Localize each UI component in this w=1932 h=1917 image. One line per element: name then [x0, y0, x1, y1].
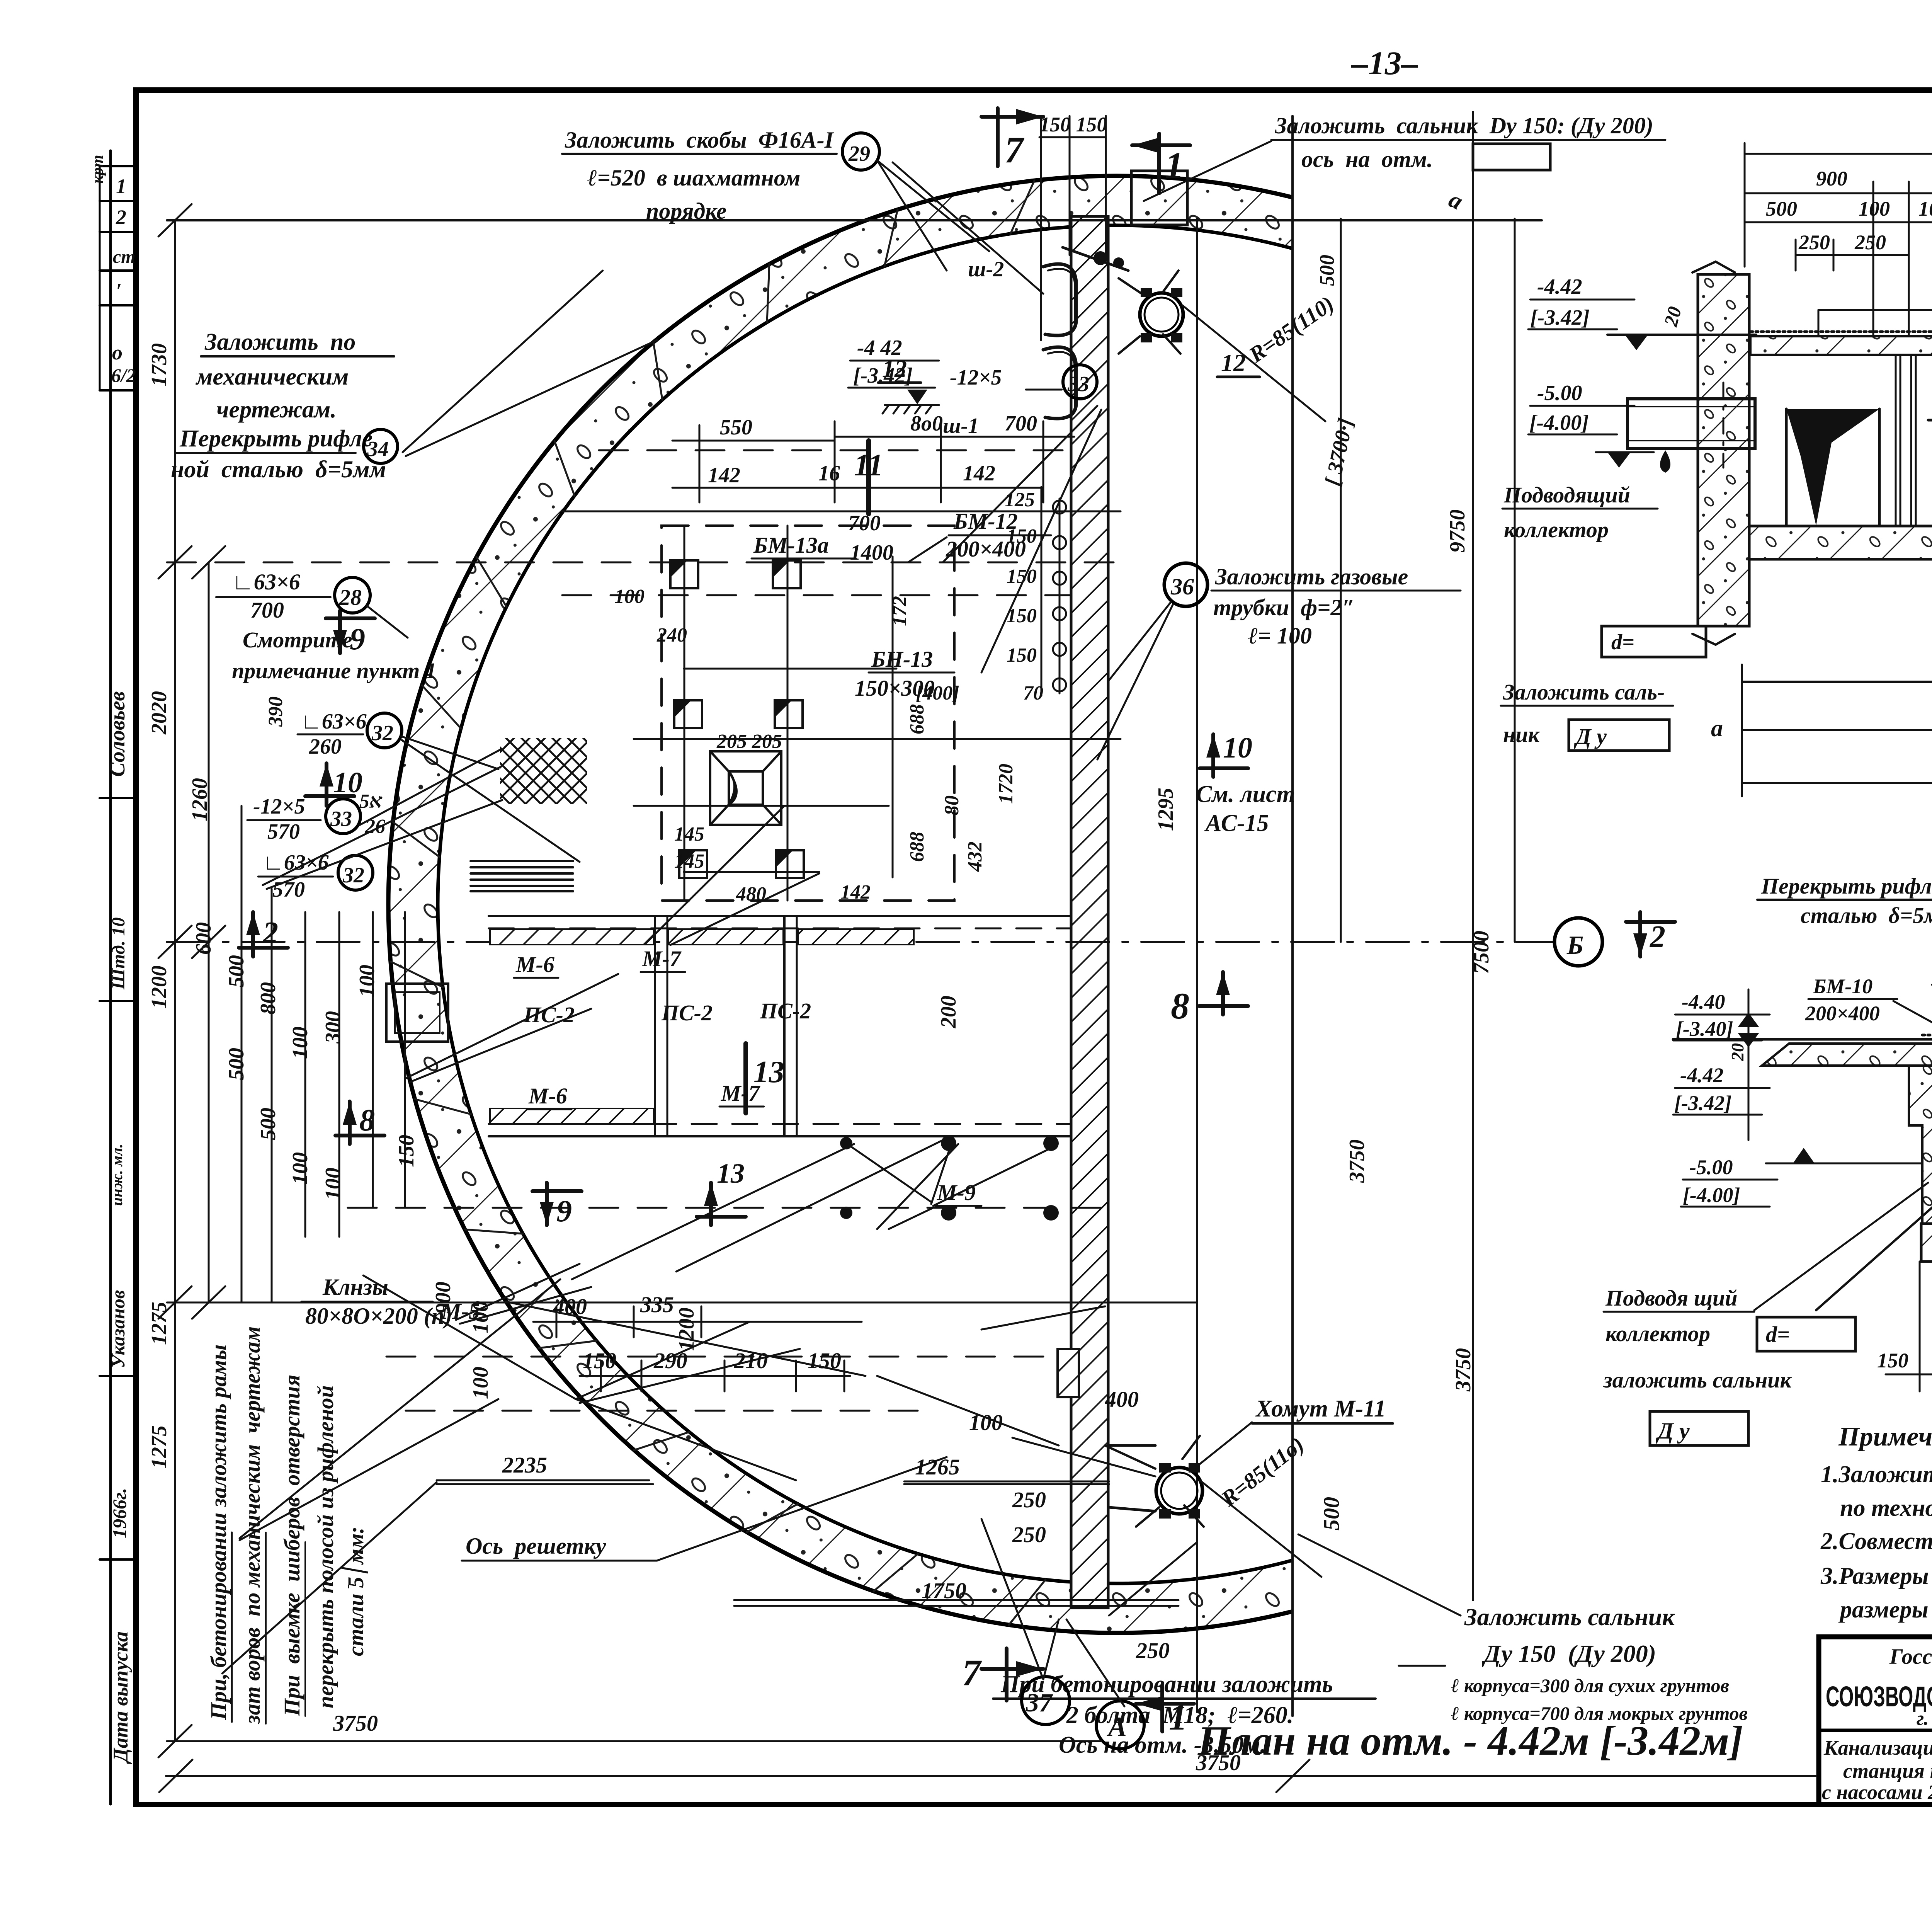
svg-text:100: 100: [288, 1027, 312, 1059]
svg-text:200: 200: [937, 996, 961, 1028]
svg-text:260: 260: [309, 735, 342, 759]
dims under pit: [1886, 1262, 1932, 1391]
svg-text:БМ-13а: БМ-13а: [753, 533, 829, 558]
1 mark top: [1132, 134, 1190, 193]
svg-text:Дата выпуска: Дата выпуска: [109, 1631, 132, 1764]
svg-text:80×8О×200 (п): 80×8О×200 (п): [305, 1303, 452, 1329]
rotated margin signatures: [105, 691, 132, 1764]
svg-text:150: 150: [1877, 1349, 1908, 1372]
svg-text:172: 172: [889, 596, 911, 626]
svg-text:250: 250: [1854, 231, 1886, 254]
svg-text:R=85(11о): R=85(11о): [1216, 1432, 1309, 1512]
svg-text:150: 150: [1007, 525, 1037, 547]
svg-text:чертежам.: чертежам.: [216, 397, 337, 423]
horizontal axis top: [167, 219, 1542, 221]
svg-text:перекрыть полосой из рифленой: перекрыть полосой из рифленой: [313, 1385, 338, 1708]
svg-text:-5.00: -5.00: [1537, 381, 1582, 405]
svg-text:примечание пункт 1: примечание пункт 1: [232, 658, 437, 683]
8 mark: [335, 1102, 384, 1144]
bottom long dim line: [166, 1775, 1816, 1777]
svg-text:зат воров по механическим че: зат воров по механическим чертежам: [240, 1326, 265, 1725]
svg-text:37: 37: [1026, 1688, 1053, 1717]
svg-text:Хомут М-11: Хомут М-11: [1255, 1396, 1386, 1422]
svg-text:о: о: [112, 341, 122, 364]
svg-text:размеры в квадратных скобках д: размеры в квадратных скобках даны для ст…: [1838, 1597, 1932, 1623]
svg-text:700: 700: [250, 598, 284, 623]
svg-text:А: А: [1107, 1711, 1127, 1742]
svg-text:3750: 3750: [333, 1711, 378, 1736]
labels БМ-10 ПС-2 М-б: [1805, 960, 1932, 1025]
svg-text:205 205: 205 205: [716, 730, 782, 752]
svg-text:200×400: 200×400: [1805, 1002, 1880, 1025]
svg-text:688: 688: [906, 832, 928, 862]
svg-text:7500: 7500: [1469, 931, 1493, 974]
svg-text:Б: Б: [1566, 930, 1583, 960]
svg-text:335: 335: [640, 1292, 674, 1317]
7 mark bottom: [981, 1648, 1043, 1701]
bottom dim lines: [1742, 665, 1932, 796]
svg-text:32: 32: [342, 863, 364, 887]
svg-text:688: 688: [906, 704, 928, 734]
svg-text:3750: 3750: [1196, 1750, 1241, 1775]
rooms block: [489, 916, 1071, 1136]
svg-text:∟63×6: ∟63×6: [232, 569, 300, 594]
svg-text:[-3.42]: [-3.42]: [1530, 306, 1590, 330]
svg-text:300: 300: [321, 1011, 345, 1044]
svg-text:1295: 1295: [1154, 788, 1178, 831]
svg-text:3.Размеры в круглых скобках да: 3.Размеры в круглых скобках даны для ста…: [1820, 1563, 1932, 1589]
dark junction dots: [941, 1136, 956, 1151]
floor level line + riffle: [1673, 1038, 1932, 1041]
leaders to М-9 dots: [850, 1146, 931, 1202]
svg-text:Перекрыть рифле: Перекрыть рифле: [179, 426, 372, 452]
svg-text:Заложить сальник: Заложить сальник: [1464, 1603, 1675, 1631]
Перекрыть рифленой сталью + 34: [1761, 873, 1932, 928]
Подводящий коллектор block (8-8): [1503, 482, 1665, 747]
svg-text:Заложить саль-: Заложить саль-: [1503, 679, 1665, 705]
axis 2 dash-dot: [167, 941, 1554, 943]
svg-text:крт: крт: [89, 155, 107, 184]
svg-text:-4.42: -4.42: [1680, 1064, 1723, 1087]
top notes: skoby: [565, 127, 835, 224]
svg-text:8: 8: [1171, 985, 1189, 1027]
svg-text:70: 70: [1023, 682, 1043, 704]
svg-text:трубки ф=2″: трубки ф=2″: [1213, 595, 1355, 620]
9 marks: [326, 611, 375, 653]
svg-text:∟63×6: ∟63×6: [263, 851, 329, 875]
svg-text:См. лист: См. лист: [1196, 781, 1295, 807]
svg-text:ст: ст: [113, 247, 136, 267]
svg-text:250: 250: [1798, 231, 1830, 254]
svg-text:100: 100: [321, 1168, 345, 1200]
svg-text:2020: 2020: [147, 691, 171, 735]
svg-text:10: 10: [333, 766, 362, 799]
svg-text:–13–: –13–: [1351, 44, 1418, 82]
room labels: [441, 946, 976, 1324]
svg-text:[ 3700·]: [ 3700·]: [1320, 416, 1358, 488]
svg-text:1730: 1730: [147, 343, 171, 386]
svg-text:240: 240: [656, 624, 687, 646]
svg-text:коллектор: коллектор: [1504, 517, 1609, 542]
svg-text:100: 100: [355, 965, 379, 997]
svg-text:ник: ник: [1503, 722, 1540, 747]
svg-text:700: 700: [1005, 412, 1037, 436]
left binding margin line: [109, 151, 112, 1804]
svg-text:1720: 1720: [995, 764, 1017, 804]
1 mark bottom: [1136, 1685, 1194, 1731]
main vertical axis lines right of band: [1197, 112, 1515, 1716]
rotated dims right part: [937, 416, 1493, 1392]
bottom slab: [1749, 526, 1932, 559]
svg-text:Д у: Д у: [1656, 1418, 1690, 1444]
svg-text:1400: 1400: [850, 541, 893, 565]
interior small dims: [359, 586, 1017, 905]
svg-text:Ду 150 (Ду 200): Ду 150 (Ду 200): [1482, 1640, 1656, 1667]
lower area dims: [333, 1348, 1344, 1775]
svg-text:d=: d=: [1611, 630, 1634, 654]
svg-text:900: 900: [1816, 167, 1847, 190]
svg-text:׬א5: ׬א5: [359, 790, 383, 812]
-12x5 570 33: [253, 795, 305, 844]
Подводящий коллектор block (9-9): [1603, 1285, 1792, 1393]
svg-text:13: 13: [717, 1158, 745, 1189]
svg-text:′: ′: [116, 279, 122, 302]
svg-text:[-4.00]: [-4.00]: [1529, 411, 1589, 435]
small left block on axis: [386, 984, 448, 1042]
svg-text:100: 100: [614, 586, 645, 608]
svg-text:1275: 1275: [147, 1302, 171, 1345]
svg-text:20: 20: [1660, 304, 1685, 329]
svg-text:900: 900: [431, 1282, 455, 1314]
level -4.42 left: [1530, 275, 1590, 330]
cross-hatched patch: [500, 738, 587, 804]
top dim lines: [1745, 143, 1932, 802]
column double lines: [1896, 355, 1916, 526]
bolts column: [1041, 487, 1066, 696]
svg-text:28: 28: [339, 585, 362, 610]
rotated bottom-left long texts: [206, 1326, 368, 1725]
svg-text:М-6: М-6: [528, 1083, 567, 1108]
svg-text:1966г.: 1966г.: [109, 1488, 130, 1538]
svg-text:АС-15: АС-15: [1204, 810, 1269, 836]
chain rotated labels: [147, 343, 699, 1469]
svg-text:М-7: М-7: [642, 946, 682, 971]
svg-text:550: 550: [720, 415, 752, 439]
svg-text:500: 500: [1766, 197, 1797, 220]
ring annulus: [388, 176, 1845, 1633]
svg-text:6/2: 6/2: [111, 364, 136, 386]
svg-text:34: 34: [367, 437, 389, 461]
left slab hatch: [1762, 1044, 1932, 1066]
svg-text:по технологическому чертежу ТК: по технологическому чертежу ТК-4: [1840, 1495, 1932, 1521]
svg-text:33: 33: [330, 807, 352, 831]
svg-text:станция на 2 агрегата: станция на 2 агрегата: [1843, 1759, 1932, 1783]
svg-text:32: 32: [371, 721, 393, 745]
svg-text:250: 250: [1012, 1487, 1046, 1512]
svg-text:500: 500: [256, 1108, 280, 1140]
svg-text:390: 390: [265, 696, 287, 727]
long horizontals: [167, 450, 1197, 1741]
svg-text:Заложить скобы Ф16А-I: Заложить скобы Ф16А-I: [565, 127, 835, 153]
svg-text:ℓ= 100: ℓ= 100: [1248, 623, 1312, 649]
svg-text:1: 1: [1165, 145, 1184, 186]
svg-text:с насосами 2 ½ НФ или 4НФ: с насосами 2 ½ НФ или 4НФ: [1822, 1781, 1932, 1804]
svg-text:[-3.42]: [-3.42]: [1674, 1091, 1731, 1115]
level -5.00 left: [1529, 381, 1589, 435]
svg-text:Смотрите: Смотрите: [243, 627, 352, 652]
svg-text:d=: d=: [1766, 1322, 1790, 1347]
svg-text:сталью δ=5мм.: сталью δ=5мм.: [1801, 903, 1932, 928]
svg-text:Подводя щий: Подводя щий: [1605, 1285, 1738, 1311]
svg-text:250: 250: [1012, 1522, 1046, 1547]
svg-text:Соловьев: Соловьев: [105, 691, 129, 777]
svg-text:-4.40: -4.40: [1682, 990, 1725, 1013]
svg-text:2: 2: [116, 206, 126, 229]
black shutter triangle: [1786, 409, 1879, 526]
svg-text:145: 145: [674, 850, 704, 872]
sальник bottom-right notes: [1451, 1603, 1748, 1724]
svg-text:-5.00: -5.00: [1689, 1156, 1733, 1179]
pit floor slab: [1921, 1224, 1932, 1262]
ПС-2 bracket: [1818, 309, 1932, 311]
svg-text:инж. мл.: инж. мл.: [108, 1144, 126, 1206]
svg-text:-4.42: -4.42: [1537, 275, 1582, 299]
svg-text:Штд. 10: Штд. 10: [108, 917, 129, 990]
svg-text:8о0: 8о0: [910, 412, 943, 436]
svg-text:29: 29: [848, 142, 870, 166]
svg-text:Заложить по: Заложить по: [204, 329, 355, 355]
svg-text:стали ֿ׀5мм׃: стали ֿ׀5мм׃: [341, 1528, 368, 1656]
7 mark top: [981, 108, 1043, 166]
svg-text:1: 1: [1169, 1696, 1187, 1738]
margin ladder top: [100, 166, 136, 1559]
svg-text:150 150: 150 150: [1039, 113, 1107, 136]
svg-text:Заложить газовые: Заложить газовые: [1215, 564, 1408, 589]
svg-text:570: 570: [267, 820, 300, 844]
svg-text:[400]: [400]: [916, 682, 959, 704]
extra dashed horizontals: [406, 595, 1071, 1411]
-4.42 level plan top: [853, 336, 913, 388]
svg-text:ℓ корпуса=700 для мокрых грунт: ℓ корпуса=700 для мокрых грунтов: [1451, 1702, 1748, 1724]
svg-text:ш-1: ш-1: [943, 414, 979, 438]
svg-text:Примечания:: Примечания:: [1838, 1422, 1932, 1452]
pipe through wall: [1628, 399, 1755, 448]
svg-text:заложить сальник: заложить сальник: [1603, 1367, 1792, 1393]
left wall: [1909, 1066, 1932, 1224]
svg-text:порядке: порядке: [646, 198, 727, 224]
svg-text:-12×5: -12×5: [253, 795, 305, 819]
svg-text:При, бетонировании заложить ра: При, бетонировании заложить рамы: [206, 1345, 231, 1720]
svg-text:БН-13: БН-13: [871, 647, 933, 672]
10 mark left: [305, 763, 354, 806]
svg-text:г. Москва: г. Москва: [1917, 1708, 1932, 1730]
svg-text:2235: 2235: [502, 1452, 547, 1478]
svg-text:Перекрыть рифленой: Перекрыть рифленой: [1761, 873, 1932, 899]
БМ-13а / БН-13 labels: [753, 533, 935, 701]
svg-text:150: 150: [583, 1348, 616, 1373]
svg-text:1: 1: [116, 175, 126, 198]
svg-text:2: 2: [262, 916, 278, 950]
vertical chord wall band: [1071, 216, 1108, 1608]
svg-text:ось на отм.: ось на отм.: [1301, 146, 1433, 172]
small squares with dark corner: [670, 560, 804, 878]
svg-text:БМ-10: БМ-10: [1813, 975, 1872, 998]
svg-text:33: 33: [1067, 372, 1089, 396]
svg-text:ПС-2: ПС-2: [523, 1002, 575, 1027]
svg-text:ш-2: ш-2: [968, 257, 1004, 281]
svg-text:10: 10: [1223, 732, 1252, 764]
БМ-12: [946, 509, 1026, 562]
margin small texts: [89, 155, 136, 386]
circle 36 + газовые трубки: [1164, 563, 1207, 606]
svg-text:Заложить сальник Dу 150: (Ду: Заложить сальник Dу 150: (Ду 200): [1275, 113, 1653, 138]
svg-text:Ось решетку: Ось решетку: [466, 1533, 606, 1559]
svg-text:Подводящий: Подводящий: [1503, 482, 1630, 507]
svg-text:׬16: ׬16: [818, 461, 840, 485]
svg-text:7: 7: [962, 1652, 982, 1693]
svg-text:500: 500: [224, 1048, 248, 1080]
svg-text:1750: 1750: [922, 1578, 966, 1603]
svg-text:500: 500: [1315, 255, 1338, 286]
svg-text:а: а: [1445, 186, 1467, 215]
svg-text:коллектор: коллектор: [1605, 1321, 1710, 1346]
svg-text:ℓ=520 в шахматном: ℓ=520 в шахматном: [587, 165, 801, 191]
svg-text:100: 100: [288, 1152, 312, 1185]
svg-text:М-6: М-6: [515, 952, 554, 977]
svg-text:2.Совместно с данным листом с: 2.Совместно с данным листом см. листы АС…: [1820, 1528, 1932, 1554]
svg-text:9: 9: [556, 1194, 572, 1228]
svg-text:142: 142: [708, 463, 740, 487]
top slab left with riffled strip: [1750, 336, 1932, 355]
ticks on chains: [158, 204, 225, 1757]
dashed mid line: [1928, 419, 1932, 422]
svg-text:[-3.40]: [-3.40]: [1676, 1017, 1733, 1040]
svg-text:1275: 1275: [147, 1425, 171, 1469]
125/150 chain labels: [1005, 489, 1043, 704]
svg-text:432: 432: [964, 841, 986, 872]
svg-text:150: 150: [1007, 644, 1037, 666]
svg-text:СОЮЗВОДОКАНАЛПРОЕКТ: СОЮЗВОДОКАНАЛПРОЕКТ: [1826, 1680, 1932, 1713]
svg-text:а: а: [1711, 715, 1723, 742]
svg-text:ℓ корпуса=300 для сухих грунто: ℓ корпуса=300 для сухих грунтов: [1451, 1675, 1729, 1696]
svg-text:145: 145: [674, 823, 704, 845]
svg-text:800: 800: [256, 982, 280, 1015]
left levels: [1674, 990, 1740, 1207]
svg-text:Указанов: Указанов: [107, 1290, 129, 1368]
svg-text:2: 2: [1650, 920, 1665, 954]
svg-text:1260: 1260: [188, 778, 212, 821]
radial hatch ticks on ring: [391, 180, 1046, 1625]
svg-text:100: 100: [469, 1367, 493, 1399]
svg-text:125: 125: [1005, 489, 1035, 511]
svg-text:R=85(110): R=85(110): [1244, 291, 1338, 368]
top pipe detail: [1131, 171, 1187, 225]
svg-text:ной сталью δ=5мм: ной сталью δ=5мм: [171, 456, 386, 483]
left dim chains vertical lines: [175, 220, 405, 1741]
svg-text:Клнзы: Клнзы: [322, 1274, 388, 1300]
8 mark right-middle: [1199, 972, 1248, 1015]
svg-text:Канализационная насосная: Канализационная насосная: [1823, 1736, 1932, 1759]
upper machine zone: [634, 526, 954, 901]
center trapezoid sump: [710, 751, 781, 825]
2 mark right: [1626, 912, 1675, 957]
S-bars: [1043, 264, 1076, 335]
svg-text:-12×5: -12×5: [950, 366, 1002, 390]
svg-text:9750: 9750: [1446, 509, 1469, 553]
svg-text:1200: 1200: [147, 965, 171, 1009]
svg-text:100: 100: [1918, 197, 1932, 220]
2 mark left: [239, 912, 288, 957]
svg-text:1.Заложить при бетонировании д: 1.Заложить при бетонировании два чугунны…: [1821, 1461, 1932, 1488]
stair lines: [471, 861, 573, 891]
svg-text:250: 250: [1136, 1638, 1170, 1663]
svg-text:500: 500: [224, 955, 248, 987]
svg-text:ПС-2: ПС-2: [760, 998, 811, 1023]
leaders bottom-left fan: [222, 974, 1461, 1706]
left wall hatched: [1698, 274, 1749, 626]
L63x6 28: [232, 569, 300, 623]
L63x6 570 32: [263, 851, 329, 902]
svg-text:700: 700: [848, 511, 881, 535]
svg-text:3750: 3750: [1451, 1348, 1475, 1392]
svg-text:Д у: Д у: [1574, 724, 1607, 749]
svg-text:7: 7: [1005, 129, 1025, 170]
svg-text:При выемке шиберов отверсти: При выемке шиберов отверстия: [279, 1375, 304, 1716]
700/1400 dims: [848, 511, 893, 565]
11 mark: [866, 441, 871, 514]
svg-text:80: 80: [941, 795, 963, 815]
svg-text:100: 100: [1859, 197, 1890, 220]
svg-text:1200: 1200: [675, 1308, 699, 1351]
svg-text:[-3.42]: [-3.42]: [853, 364, 913, 388]
13 marks: [743, 1044, 748, 1113]
svg-text:-4 42: -4 42: [857, 336, 902, 360]
svg-text:400: 400: [1105, 1387, 1139, 1412]
10 / См. лист АС-15: [1200, 734, 1248, 777]
bottom pipe detail: [1058, 1349, 1079, 1397]
svg-text:∟63×6: ∟63×6: [301, 710, 367, 734]
svg-text:142: 142: [963, 461, 995, 485]
svg-text:М-7: М-7: [721, 1081, 760, 1106]
svg-text:142: 142: [840, 881, 871, 903]
svg-text:механическим: механическим: [195, 364, 349, 390]
svg-text:11: 11: [854, 448, 883, 482]
svg-text:500: 500: [1319, 1497, 1344, 1531]
svg-text:150: 150: [395, 1135, 418, 1167]
svg-text:[-4.00]: [-4.00]: [1683, 1183, 1740, 1207]
circle A bottom: [1096, 1701, 1144, 1749]
dims 550 800 700: [708, 412, 1037, 487]
svg-text:20: 20: [1728, 1043, 1747, 1061]
svg-text:3750: 3750: [1345, 1139, 1369, 1183]
svg-text:ПС-2: ПС-2: [661, 1000, 713, 1025]
left big texts: [171, 329, 386, 483]
svg-text:Госстрой СССР: Госстрой СССР: [1889, 1645, 1932, 1669]
circle 37 bottom: [1022, 1677, 1070, 1725]
svg-text:36: 36: [1170, 574, 1194, 599]
extra leaders / misc lines: [263, 162, 1197, 1679]
